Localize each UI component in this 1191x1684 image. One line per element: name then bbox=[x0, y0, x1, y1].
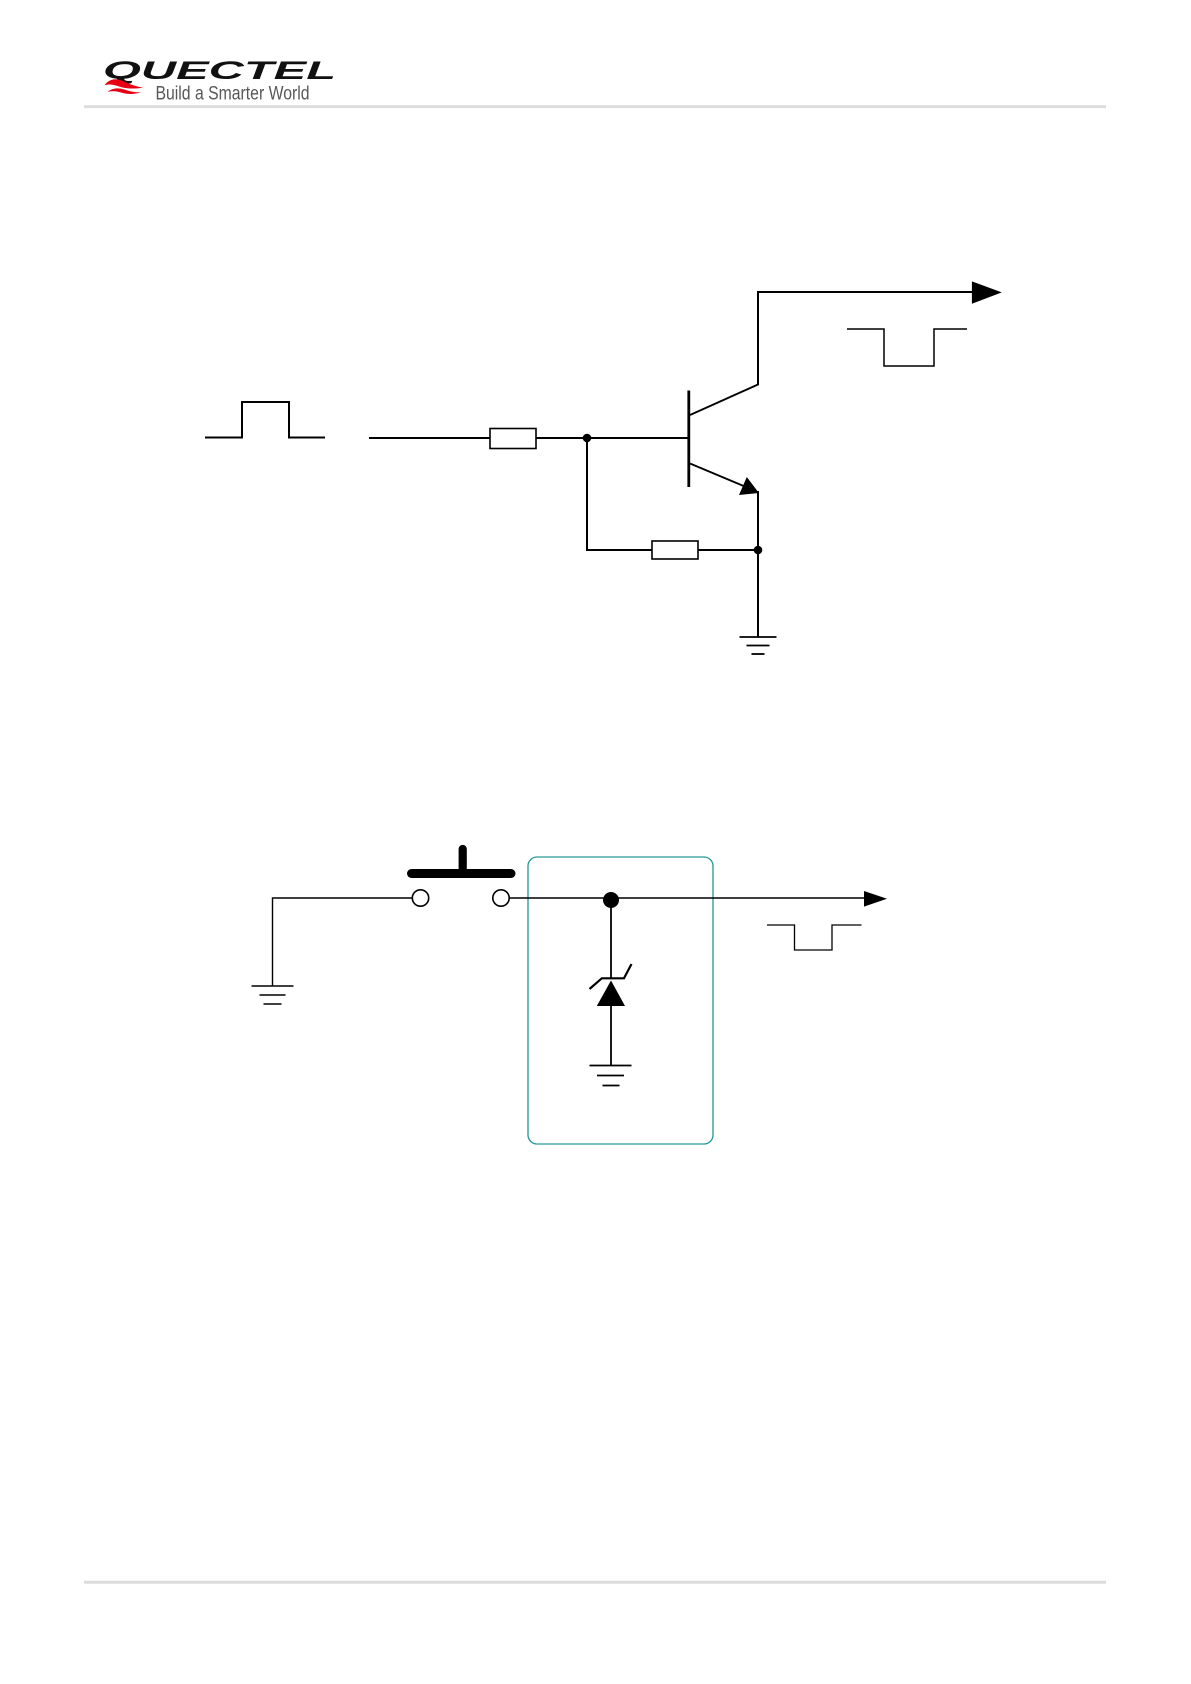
svg-text:Build a Smarter World: Build a Smarter World bbox=[156, 83, 310, 104]
svg-text:QUECTEL: QUECTEL bbox=[103, 57, 336, 85]
